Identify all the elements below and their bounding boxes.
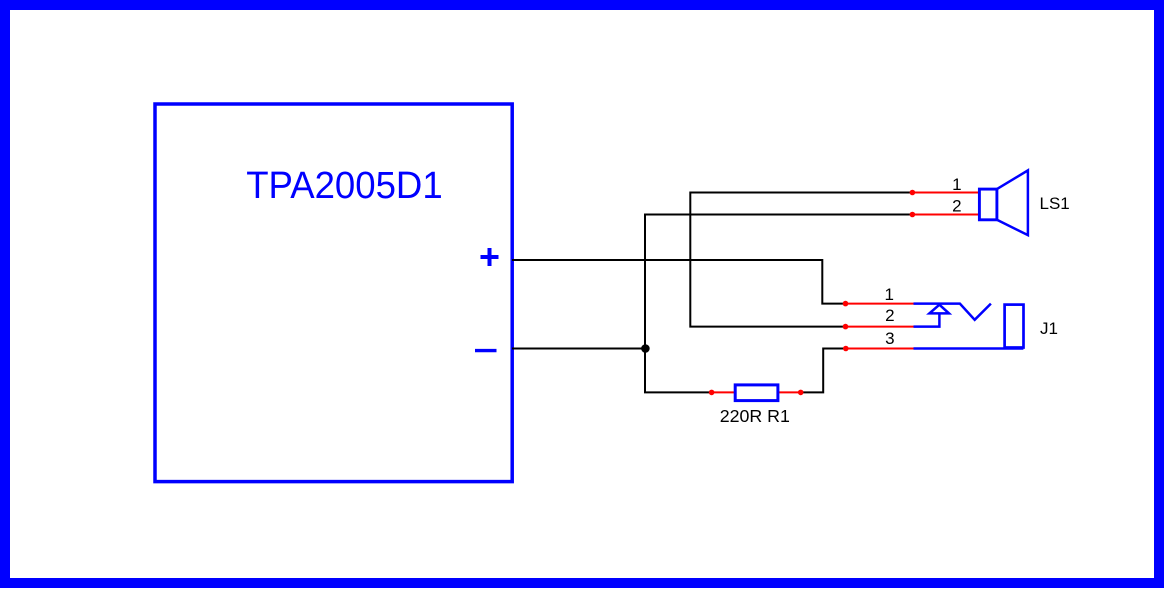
red connection dot: speaker pin 2 — [910, 212, 916, 218]
svg-text:J1: J1 — [1040, 319, 1058, 338]
IC U1 box TPA2005D1 — [155, 104, 512, 482]
red connection dot: resistor right — [798, 390, 804, 396]
jack J1 ring contact stub to pin 2 — [914, 313, 940, 326]
red connection dot: jack pin 3 — [843, 346, 849, 352]
svg-text:2: 2 — [952, 197, 961, 216]
svg-text:1: 1 — [884, 285, 893, 304]
wire: speaker LS1 pin 1 down to jack J1 pin 2 — [690, 193, 912, 327]
jack J1 tip contact with V notch — [914, 304, 991, 320]
red connection dot: jack pin 2 — [843, 324, 849, 330]
speaker LS1 magnet box — [979, 189, 997, 220]
speaker LS1 cone — [997, 170, 1028, 235]
jack J1 sleeve wire pin 3 — [914, 347, 1024, 350]
IC U1 pin label - — [475, 349, 497, 352]
red connection dot: speaker pin 1 — [910, 190, 916, 196]
red pin wire: speaker LS1 pin 2 — [912, 214, 979, 216]
wire: IC + pin to jack J1 pin 1 — [512, 260, 846, 304]
svg-text:2: 2 — [885, 306, 894, 325]
red pin wire: resistor R1 right — [778, 391, 801, 393]
svg-text:TPA2005D1: TPA2005D1 — [246, 165, 443, 207]
wire: junction down to resistor R1 left — [645, 349, 712, 393]
wire: IC - pin to junction — [512, 348, 645, 350]
svg-text:3: 3 — [885, 329, 894, 348]
svg-text:220R R1: 220R R1 — [720, 406, 790, 426]
red pin wire: resistor R1 left — [712, 391, 735, 393]
red pin wire: jack J1 pin 2 — [846, 326, 914, 328]
jack J1 ring contact arrow triangle — [929, 305, 949, 314]
IC U1 pin label + — [481, 248, 499, 266]
jack J1 sleeve body — [1005, 305, 1024, 348]
red pin wire: speaker LS1 pin 1 — [912, 192, 979, 194]
red pin wire: jack J1 pin 1 — [846, 303, 914, 305]
red connection dot: resistor left — [709, 390, 715, 396]
svg-text:LS1: LS1 — [1040, 194, 1070, 213]
resistor R1 body — [735, 385, 778, 401]
svg-text:1: 1 — [952, 175, 961, 194]
red connection dot: jack pin 1 — [843, 301, 849, 307]
wire: resistor R1 right up to jack J1 pin 3 — [801, 349, 846, 393]
red pin wire: jack J1 pin 3 — [846, 348, 914, 350]
junction dot on - net — [641, 344, 650, 353]
wire: junction up to speaker LS1 pin 2 — [645, 215, 912, 349]
